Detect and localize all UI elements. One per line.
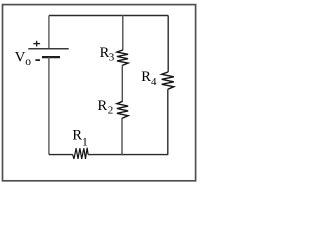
wire: top, middle branch to right branch: [123, 15, 169, 17]
svg-text:R: R: [72, 128, 82, 144]
wire: bottom, left corner to resistor R1: [49, 154, 73, 156]
wire: middle branch, top wire down to resistor R3: [122, 16, 124, 50]
wire: left branch, top corner down to battery + plate: [48, 16, 50, 49]
label R1: [72, 128, 88, 149]
resistor R2: [117, 101, 128, 118]
label R3: [100, 45, 115, 64]
node: top junction of middle branch: [122, 15, 123, 16]
node: bottom junction of middle branch: [122, 154, 123, 155]
svg-text:3: 3: [109, 52, 115, 64]
label R4: [141, 69, 157, 88]
label V_o: [15, 49, 32, 67]
svg-text:4: 4: [151, 76, 157, 88]
resistor R1: [73, 148, 89, 159]
battery V0: [28, 49, 68, 57]
wire: middle branch, R2 down to bottom wire: [121, 119, 123, 155]
wire: right branch, R4 down to bottom corner: [167, 89, 169, 154]
svg-text:R: R: [98, 98, 108, 114]
wire: middle branch, between R3 and R2: [121, 66, 123, 102]
svg-text:o: o: [25, 56, 31, 68]
svg-text:R: R: [141, 69, 151, 85]
svg-text:1: 1: [82, 134, 88, 148]
svg-text:2: 2: [108, 105, 114, 117]
svg-text:V: V: [15, 49, 26, 65]
wire: left branch, battery - plate down to bottom corner: [48, 57, 50, 155]
resistor R3: [117, 50, 128, 66]
wire: top, battery to middle branch: [49, 15, 123, 17]
wire: bottom, resistor R1 to middle branch: [88, 154, 122, 156]
battery negative terminal mark -: [35, 59, 40, 61]
wire: bottom, middle branch to right branch: [123, 154, 169, 156]
wire: right branch, top corner down to resistor R4: [167, 16, 169, 72]
battery positive terminal mark +: [33, 41, 40, 47]
resistor R4: [162, 72, 174, 89]
label R2: [98, 98, 114, 117]
